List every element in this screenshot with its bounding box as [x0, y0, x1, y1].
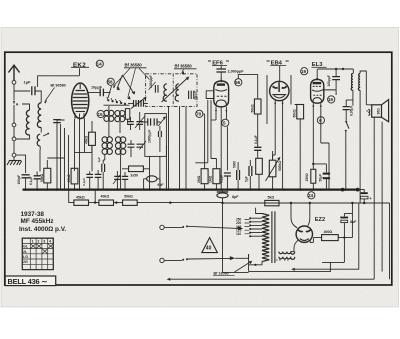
power transformer taps: [250, 218, 262, 236]
svg-text:Bf 36580: Bf 36580: [125, 63, 143, 68]
EF6 shield loop: [206, 91, 214, 99]
right side long wires: [374, 117, 389, 279]
electrolytic 8uF mid: [147, 176, 157, 182]
capacitor 50uF cathode: [313, 164, 326, 173]
svg-text:BELL 436 ∼: BELL 436 ∼: [8, 277, 48, 286]
EK2 cathode wire: [75, 145, 92, 152]
EK2 pins: [75, 113, 84, 121]
svg-text:56: 56: [235, 80, 241, 85]
svg-text:2MΩ: 2MΩ: [197, 175, 201, 183]
resistor 150 ohm cathode: [312, 163, 314, 165]
IF transformer 1 box: [145, 114, 167, 157]
bus junction dots: [24, 188, 359, 192]
EK2 internals: [79, 84, 81, 89]
main ground bus (thick): [23, 188, 360, 190]
resistor 45k: [74, 200, 89, 205]
svg-text:3x50: 3x50: [130, 174, 138, 178]
svg-text:60μμF: 60μμF: [194, 91, 198, 100]
wire: [13, 127, 15, 137]
wires from box down to bus: [150, 145, 167, 190]
padding capacitor osc: [102, 164, 105, 172]
svg-text:50kΩ: 50kΩ: [40, 173, 44, 182]
box coil pair 1: [163, 84, 167, 101]
resistor lower: [256, 158, 263, 174]
IF transformer dashed box: [146, 74, 197, 107]
resistor 2M (AVC): [201, 169, 208, 184]
terminal: [12, 153, 16, 157]
wire coil primary top: [16, 104, 30, 139]
capacitor 0,05uF (tone): [343, 107, 350, 110]
gang arrow: [131, 98, 146, 109]
box small arrow left: [149, 82, 156, 90]
callout 16: [328, 96, 335, 103]
voltage table grid: [22, 238, 53, 269]
padder capacitor pair: [127, 122, 134, 125]
EL3 internals: [313, 82, 322, 84]
EF6 pins: [216, 107, 226, 114]
svg-text:A: A: [16, 103, 19, 107]
svg-text:8μF: 8μF: [232, 195, 239, 199]
transformer wires: [353, 69, 366, 203]
wire antenna down: [13, 84, 15, 123]
antenna coil secondary: [37, 103, 41, 128]
svg-text:1: 1: [32, 239, 34, 243]
svg-text:EZ2: EZ2: [315, 217, 325, 223]
EB4 diode plates: [273, 86, 287, 88]
callout 19: [301, 68, 308, 75]
svg-text:0,1μF: 0,1μF: [220, 174, 224, 183]
EF6 internals: [220, 77, 222, 82]
speaker: [372, 100, 389, 122]
wave trap coil: [37, 134, 40, 146]
svg-text:40kΩ: 40kΩ: [101, 195, 110, 199]
svg-text:1μF: 1μF: [24, 80, 32, 85]
output transformer secondary: [358, 74, 360, 91]
svg-text:50kΩ: 50kΩ: [124, 195, 133, 199]
wire: [13, 141, 15, 153]
capacitor 5000uuF: [237, 170, 240, 180]
resistor 3x50 horizontal: [129, 166, 144, 172]
band switch fan: [117, 75, 134, 94]
callout 14: [96, 60, 103, 67]
wire antenna to cap: [14, 90, 30, 92]
EB4 side loop wires: [267, 75, 291, 124]
svg-text:40kΩ: 40kΩ: [67, 174, 71, 183]
svg-text:2: 2: [37, 239, 39, 243]
tube EB4: [279, 66, 281, 82]
svg-text:36Ω: 36Ω: [377, 108, 381, 115]
wire: [144, 179, 160, 190]
antenna: [8, 65, 19, 80]
resistor 50k chain: [123, 200, 138, 205]
wire EZ2 output up: [351, 213, 353, 237]
callout 56b: [235, 79, 242, 86]
svg-text:6: 6: [319, 118, 322, 123]
svg-text:5μF: 5μF: [245, 176, 249, 182]
callout 5: [222, 119, 229, 126]
wire EF6 screen to top rail: [238, 75, 257, 99]
bottom heater lines: [294, 203, 359, 269]
svg-text:Inst. 4000Ω p.V.: Inst. 4000Ω p.V.: [19, 226, 66, 233]
svg-text:40: 40: [206, 246, 212, 252]
osc trim resistor: [125, 109, 129, 120]
primary top lead: [256, 208, 262, 214]
callout 24: [308, 192, 315, 199]
fuse triangle 40: [202, 238, 218, 253]
svg-text:150Ω: 150Ω: [305, 173, 309, 182]
svg-text:0,1μF: 0,1μF: [29, 176, 33, 185]
tap leader ticks: [245, 219, 250, 233]
padder caps lower: [128, 144, 144, 147]
capacitor pair (EK2 cathode): [86, 174, 93, 177]
switch contact wave trap: [43, 134, 48, 136]
svg-text:70: 70: [196, 112, 202, 117]
transformer core: [272, 211, 275, 263]
oscillator coil upper pair: [104, 110, 125, 121]
svg-text:1MΩ: 1MΩ: [209, 175, 213, 183]
EZ2 filament wires: [294, 240, 313, 252]
svg-text:45kΩ: 45kΩ: [76, 195, 85, 199]
terminal: [12, 137, 16, 141]
band switch contacts: [107, 99, 126, 105]
resistor 5k: [265, 200, 279, 205]
svg-text:2G: 2G: [23, 260, 28, 264]
capacitor 150k col: [249, 166, 252, 176]
callout 70: [196, 110, 203, 117]
antenna terminal: [12, 80, 16, 84]
transformer bottom leads: [249, 254, 262, 272]
svg-text:56: 56: [108, 80, 114, 85]
oscillator coil lower pair: [102, 137, 126, 155]
capacitor antenna series: [32, 86, 35, 95]
title box BELL 436: [5, 276, 56, 286]
svg-text:5kΩ: 5kΩ: [268, 196, 275, 200]
wire top rail to EK2 grid: [38, 76, 80, 87]
svg-text:5: 5: [223, 121, 226, 126]
svg-text:EK2: EK2: [73, 62, 86, 69]
trimmer cap with arrow: [136, 122, 143, 125]
resistor 400ohm: [322, 235, 339, 241]
heater secondary: [279, 252, 295, 260]
svg-text:1μF: 1μF: [97, 157, 101, 163]
svg-text:1000μμF: 1000μμF: [148, 130, 152, 143]
callout 56 (band switch): [107, 78, 114, 85]
resistor 50k (EB4/EL3): [297, 105, 304, 119]
svg-text:24: 24: [308, 193, 314, 198]
capacitor +8uF right of bus: [358, 190, 365, 192]
EK2 grid cap stem: [79, 68, 81, 76]
svg-text:50kΩ: 50kΩ: [250, 104, 254, 113]
svg-text:2,000μμF: 2,000μμF: [228, 70, 245, 74]
wires gang: [128, 102, 148, 104]
svg-text:50kΩ: 50kΩ: [293, 109, 297, 118]
wire terminal to cap row: [16, 155, 26, 173]
wire to ground: [13, 157, 15, 160]
callout 6: [317, 117, 324, 124]
resistor 50k screen: [254, 99, 261, 114]
osc coil wires: [103, 106, 120, 190]
resistor below EK2: [71, 168, 78, 184]
svg-text:MF 455kHz: MF 455kHz: [21, 218, 54, 225]
cap pair near box: [148, 118, 157, 125]
svg-text:100pF: 100pF: [17, 175, 21, 185]
wire bundle left of EK2: [57, 120, 69, 190]
box tuning arrow: [162, 78, 189, 103]
mains terminal upper: [160, 225, 164, 229]
capacitor 100pF (left): [22, 175, 30, 178]
EF6 pin wires down: [216, 111, 226, 189]
voltage tap labels: [236, 218, 242, 236]
resistor 40k chain: [99, 200, 114, 205]
wire band switch to gang: [104, 104, 130, 106]
svg-text:Bf 36580: Bf 36580: [175, 64, 193, 69]
secondary HT line below bus: [223, 202, 390, 204]
svg-text:GL: GL: [23, 245, 29, 249]
svg-text:14: 14: [97, 62, 103, 67]
filter cap 8uF: [343, 213, 345, 216]
svg-text:10μμF: 10μμF: [91, 86, 103, 90]
schematic border frame: [5, 52, 392, 285]
svg-text:15: 15: [98, 112, 104, 117]
tube EL3: [316, 69, 318, 80]
capacitor 2000uuF (EF6 top): [220, 66, 222, 69]
svg-text:4: 4: [49, 239, 51, 243]
wires exiting box bottom: [169, 106, 187, 189]
svg-text:100μμF: 100μμF: [327, 75, 331, 87]
EL3 pin wires: [313, 108, 329, 190]
top rail right: [318, 68, 354, 70]
tuning gang capacitor: [134, 100, 144, 107]
svg-text:19: 19: [301, 69, 307, 74]
EB4 pin wires: [275, 106, 282, 190]
svg-text:0,1μF: 0,1μF: [82, 178, 86, 186]
primary winding: [262, 214, 269, 262]
svg-text:LG: LG: [23, 255, 28, 259]
svg-text:8μF: 8μF: [350, 220, 357, 224]
svg-text:1937-38: 1937-38: [21, 211, 45, 218]
svg-text:500kΩ: 500kΩ: [278, 161, 282, 171]
antenna coil primary: [26, 110, 30, 135]
box cap left: [155, 85, 158, 93]
svg-text:5000: 5000: [232, 161, 236, 168]
box divider: [172, 74, 174, 107]
potentiometer 500k: [269, 160, 276, 177]
wire coil secondary bottom: [40, 127, 42, 132]
svg-text:0,1μF: 0,1μF: [254, 135, 258, 144]
EK2 pin wires down: [75, 119, 85, 190]
svg-text:3: 3: [43, 239, 45, 243]
callout 15: [97, 110, 104, 117]
box right caps: [189, 91, 194, 99]
EB4 cathode pins: [275, 100, 282, 106]
tube EK2: [72, 83, 89, 119]
8uF electrolytic below bus: [222, 190, 224, 192]
table labels: [23, 239, 51, 264]
resistor 1M: [213, 169, 220, 184]
box internal cap: [159, 131, 162, 137]
box coil pair 2: [175, 84, 179, 101]
svg-text:40kΩ: 40kΩ: [85, 135, 89, 144]
leader lines: [114, 68, 131, 86]
tube EF6: [214, 81, 229, 107]
resistor 50k (antenna): [44, 168, 51, 183]
svg-text:16: 16: [328, 97, 334, 102]
tone switch: [345, 121, 347, 123]
capacitor 0,1uF: [34, 176, 41, 179]
bias resistor chain drop: [69, 190, 74, 203]
EL3 pins: [313, 103, 321, 108]
svg-text:Bf 16580: Bf 16580: [214, 271, 229, 275]
wire trap to cap: [39, 146, 41, 171]
svg-text:400Ω: 400Ω: [324, 230, 333, 234]
svg-text:50μF: 50μF: [318, 174, 322, 182]
svg-text:Bf 36580: Bf 36580: [51, 84, 66, 88]
svg-text:0,05μF: 0,05μF: [350, 106, 354, 116]
svg-text:110: 110: [236, 232, 241, 236]
tube EZ2: [296, 226, 312, 242]
output transformer primary: [351, 74, 353, 91]
AVC wire trio: [205, 100, 211, 169]
EK2 anode components row: resistor 40k: [89, 132, 96, 145]
terminal: [12, 123, 16, 127]
mains terminal lower: [160, 258, 164, 262]
capacitor 0,1uF (cathode): [224, 173, 231, 176]
ground: [7, 161, 22, 166]
wire cap to coil node: [35, 91, 41, 103]
capacitor pair mid: [114, 176, 120, 179]
padder cap left of EK2: [53, 120, 61, 123]
